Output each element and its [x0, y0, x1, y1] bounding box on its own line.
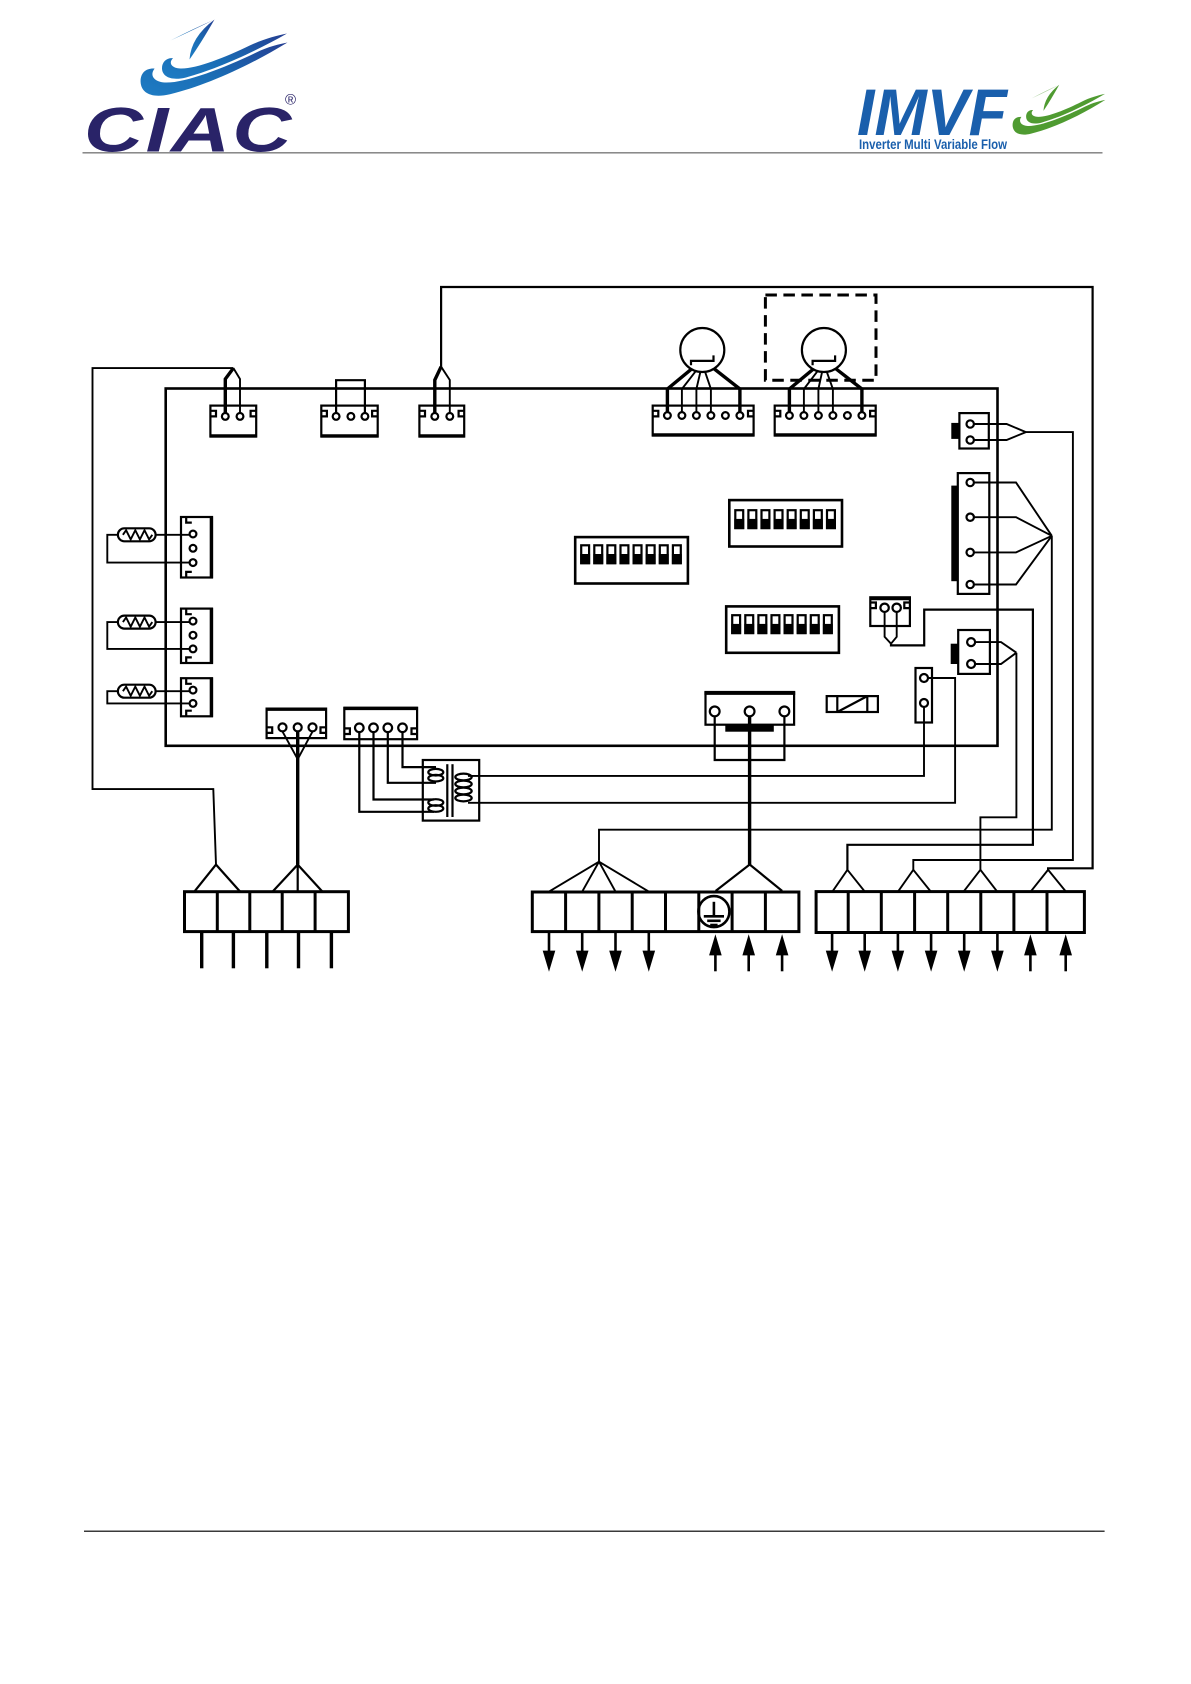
- connector CN9 (2-pin jack): [959, 413, 988, 448]
- wire TH1 to CN-TH1: [107, 535, 189, 563]
- TB3 supply arrows: [1029, 954, 1032, 972]
- connector CN-TH3 (2-pin): [181, 678, 212, 716]
- motor M1 (fan motor): [680, 328, 724, 372]
- TB2 load arrows: [548, 932, 551, 952]
- connector CN4 (6-pin fan motor 1): [653, 406, 754, 436]
- connector CN1 (2-pin): [210, 406, 256, 437]
- connector CN11 (2-pin vertical): [916, 668, 933, 723]
- connector CN2 (3-pin with jumper): [321, 406, 377, 437]
- wire CN9 merge to TB3 fan 2: [974, 424, 1026, 440]
- thermistor TH1: [118, 528, 156, 541]
- wire fan into TB3 cells 1-2: [832, 870, 864, 892]
- IMVF logo swoosh: [1013, 85, 1106, 135]
- transformer T1: [423, 760, 479, 821]
- connector CN12 (2-pin): [870, 597, 910, 626]
- wire fan into TB1 cells 1-2: [195, 865, 240, 892]
- wire CN8 outer pins jumper: [715, 716, 785, 760]
- TB1 field-wiring leads: [200, 932, 203, 969]
- DIP switch SW2 (8-way): [729, 500, 842, 546]
- thermistor TH2: [118, 616, 156, 629]
- wire CN8 center pin to TB2: [748, 716, 751, 864]
- connector CN5 (6-pin fan motor 2): [775, 406, 876, 436]
- header rule: [83, 152, 1103, 154]
- connector CN13 (2-pin jack): [958, 630, 990, 674]
- TB3 load arrows: [831, 932, 834, 952]
- PCB control board outline: [166, 389, 998, 746]
- wire CN13 merge to TB3 fan 3: [975, 642, 1016, 664]
- connector CN-TH2 (3-pin): [181, 609, 212, 663]
- wire fan into TB1 cells 3-5: [273, 865, 322, 892]
- wire fan into TB3 cells 3-4: [898, 870, 931, 892]
- wire M2 leads to CN5: [789, 369, 813, 412]
- svg-text:Inverter Multi Variable Flow: Inverter Multi Variable Flow: [859, 137, 1007, 152]
- wire CN7 to transformer primary: [403, 732, 437, 767]
- DIP switch SW1 (8-way): [575, 537, 688, 583]
- wire CN6 merge down to TB1: [283, 732, 313, 760]
- connector CN-TH1 (3-pin): [181, 517, 212, 578]
- wire CN12 to TB3 fan 1: [885, 612, 897, 644]
- DIP switch SW3 (8-way): [726, 606, 839, 652]
- wire CN1 merge to apex: [225, 368, 233, 413]
- wire fan into TB3 cells 7-8: [1031, 870, 1066, 892]
- wire transformer secondary to CN11: [468, 707, 924, 776]
- terminal block TB3 (8-way): [816, 892, 1084, 933]
- connector CN3 (2-pin): [419, 406, 464, 437]
- wire TH3 to CN-TH3: [107, 691, 189, 703]
- dashed enclosure for optional motor M2: [765, 295, 876, 380]
- wire left from CN1 to terminal block TB1: [93, 368, 234, 864]
- connector CN10 (4-pin header): [958, 473, 990, 594]
- wire fan into TB2 cells 1-4: [549, 862, 649, 892]
- svg-text:®: ®: [285, 92, 296, 109]
- wire fan into TB3 cells 5-6: [964, 870, 998, 892]
- wire top supply from CN3 to terminal block TB3: [441, 287, 1093, 870]
- TB2 supply arrows: [714, 954, 717, 972]
- terminal block TB1 (5-way): [185, 892, 349, 932]
- svg-text:CIAC: CIAC: [84, 96, 294, 166]
- footer rule: [84, 1530, 1105, 1532]
- connector CN8 (3-pin power): [706, 692, 795, 725]
- wire fan into TB2 cells 6-8: [716, 865, 782, 891]
- wire M1 leads to CN4: [667, 369, 691, 412]
- terminal block TB2 (8-way with earth): [532, 892, 799, 932]
- wire CN2 jumper: [336, 380, 365, 413]
- wire TH2 to CN-TH2: [107, 622, 189, 649]
- connector CN6 (3-pin): [267, 709, 327, 739]
- thermistor TH3: [118, 685, 156, 698]
- wire CN10 merge to TB2 fan 1: [974, 483, 1052, 585]
- fuse F1: [827, 696, 878, 712]
- connector CN7 (4-pin to transformer): [344, 708, 417, 739]
- wire CN3 merge to apex: [435, 367, 441, 413]
- ground (protective earth symbol): [698, 896, 729, 927]
- CIAC logo swoosh: [141, 20, 288, 96]
- motor M2 (optional fan motor): [802, 328, 846, 372]
